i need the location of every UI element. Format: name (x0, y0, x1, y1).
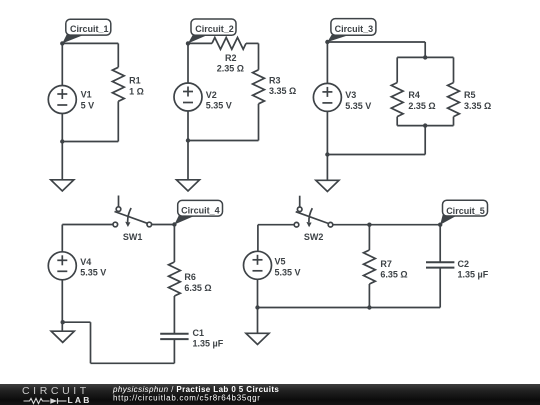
svg-text:2.35 Ω: 2.35 Ω (217, 64, 244, 74)
svg-text:5.35 V: 5.35 V (275, 267, 301, 277)
svg-text:V2: V2 (206, 90, 217, 100)
svg-text:5.35 V: 5.35 V (206, 101, 232, 111)
svg-text:C1: C1 (193, 328, 205, 338)
svg-text:Circuit_1: Circuit_1 (70, 24, 109, 34)
svg-text:Circuit_5: Circuit_5 (446, 206, 485, 216)
svg-text:V1: V1 (81, 90, 92, 100)
svg-text:1.35 µF: 1.35 µF (458, 270, 489, 280)
svg-text:SW1: SW1 (123, 232, 143, 242)
svg-text:R6: R6 (184, 272, 196, 282)
svg-text:2.35 Ω: 2.35 Ω (408, 101, 435, 111)
svg-text:C2: C2 (458, 259, 470, 269)
svg-text:V4: V4 (80, 257, 91, 267)
svg-text:R3: R3 (269, 75, 281, 85)
svg-text:R1: R1 (129, 76, 141, 86)
svg-text:Circuit_4: Circuit_4 (181, 206, 220, 216)
svg-text:3.35 Ω: 3.35 Ω (269, 86, 296, 96)
svg-text:1 Ω: 1 Ω (129, 86, 144, 96)
svg-text:SW2: SW2 (304, 232, 324, 242)
svg-text:R7: R7 (380, 259, 392, 269)
svg-text:http://circuitlab.com/c5r8r64b: http://circuitlab.com/c5r8r64b35qgr (113, 393, 261, 402)
svg-text:5.35 V: 5.35 V (80, 268, 106, 278)
svg-text:1.35 µF: 1.35 µF (193, 339, 224, 349)
svg-text:6.35 Ω: 6.35 Ω (380, 270, 407, 280)
svg-text:R2: R2 (225, 53, 237, 63)
svg-text:V5: V5 (275, 257, 286, 267)
svg-text:Circuit_2: Circuit_2 (195, 24, 234, 34)
svg-text:3.35 Ω: 3.35 Ω (464, 101, 491, 111)
svg-text:Circuit_3: Circuit_3 (335, 24, 374, 34)
svg-text:LAB: LAB (68, 395, 92, 405)
svg-text:R4: R4 (408, 90, 420, 100)
svg-text:5.35 V: 5.35 V (345, 101, 371, 111)
svg-text:V3: V3 (345, 90, 356, 100)
svg-text:R5: R5 (464, 90, 476, 100)
svg-text:5 V: 5 V (81, 101, 95, 111)
svg-text:6.35 Ω: 6.35 Ω (184, 283, 211, 293)
